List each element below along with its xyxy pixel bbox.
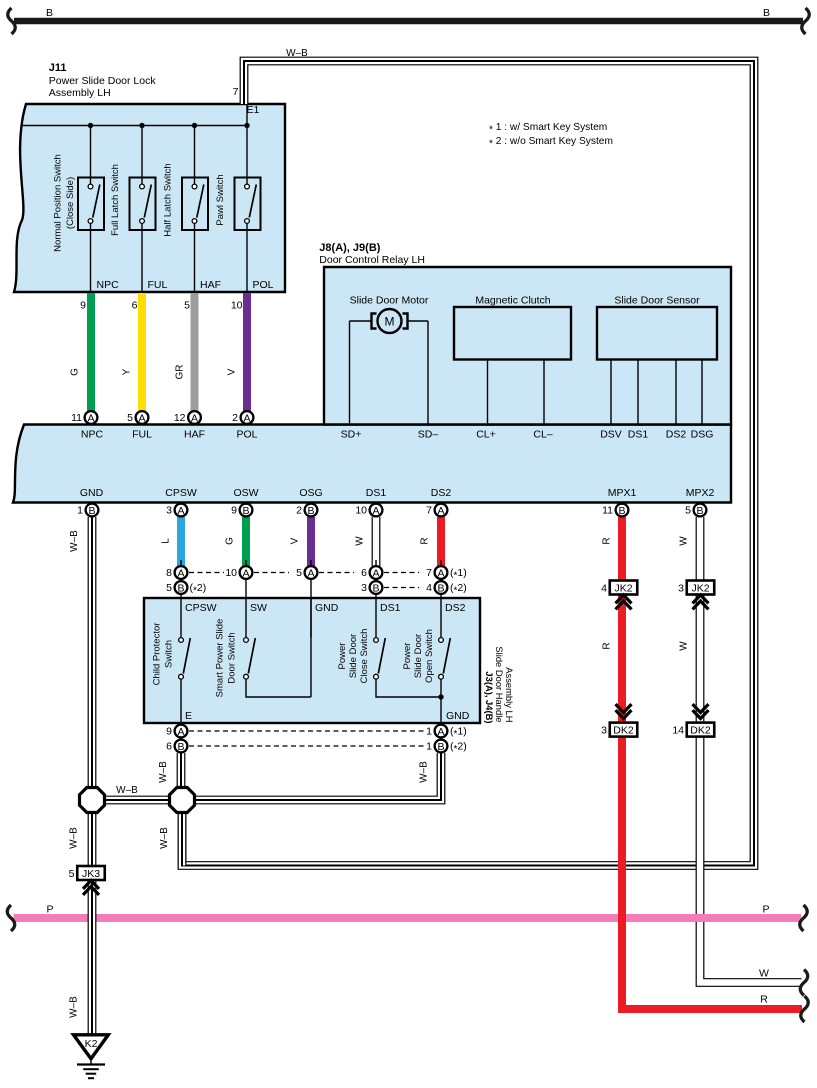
svg-text:SW: SW — [250, 602, 267, 614]
svg-text:R: R — [601, 642, 612, 649]
svg-text:FUL: FUL — [148, 279, 168, 291]
svg-text:Slide Door Handle: Slide Door Handle — [494, 646, 505, 722]
svg-text:B: B — [88, 505, 95, 517]
svg-text:Slide Door: Slide Door — [413, 634, 424, 678]
svg-text:A: A — [372, 567, 379, 579]
svg-text:OSG: OSG — [299, 487, 322, 499]
svg-text:W–B: W–B — [418, 761, 429, 783]
svg-text:14: 14 — [672, 725, 684, 737]
svg-text:A: A — [177, 567, 184, 579]
svg-text:Half Latch Switch: Half Latch Switch — [163, 163, 174, 236]
svg-text:11: 11 — [71, 412, 82, 424]
svg-text:M: M — [385, 315, 395, 329]
svg-text:B: B — [437, 741, 444, 753]
svg-text:2: 2 — [232, 412, 238, 424]
svg-text:B: B — [46, 7, 53, 19]
svg-text:A: A — [307, 567, 314, 579]
svg-text:W: W — [678, 536, 689, 546]
svg-text:7: 7 — [426, 567, 432, 579]
svg-text:SD–: SD– — [418, 429, 439, 441]
svg-text:CL–: CL– — [533, 429, 552, 441]
svg-text:W–B: W–B — [116, 785, 138, 796]
svg-text:E: E — [185, 710, 192, 722]
svg-text:MPX1: MPX1 — [608, 487, 637, 499]
svg-text:GND: GND — [80, 487, 104, 499]
svg-text:1: 1 — [77, 505, 83, 517]
svg-text:5: 5 — [166, 582, 172, 594]
svg-text:R: R — [419, 537, 430, 544]
svg-text:JK2: JK2 — [691, 583, 709, 595]
svg-text:B: B — [307, 505, 314, 517]
svg-text:A: A — [242, 567, 249, 579]
svg-text:Power: Power — [337, 643, 348, 670]
svg-text:B: B — [177, 582, 184, 594]
svg-text:11: 11 — [602, 505, 613, 517]
svg-text:HAF: HAF — [200, 279, 221, 291]
svg-text:R: R — [760, 994, 768, 1006]
svg-text:Full Latch Switch: Full Latch Switch — [110, 164, 121, 236]
svg-text:4: 4 — [426, 582, 432, 594]
svg-text:6: 6 — [132, 300, 138, 312]
svg-text:Open Switch: Open Switch — [424, 629, 435, 683]
svg-text:A: A — [437, 726, 444, 738]
svg-text:V: V — [226, 368, 237, 375]
svg-text:3: 3 — [601, 725, 607, 737]
svg-text:A: A — [243, 412, 250, 424]
svg-text:A: A — [191, 412, 198, 424]
svg-text:DS1: DS1 — [380, 602, 401, 614]
svg-text:G: G — [69, 368, 80, 376]
svg-text:B: B — [177, 741, 184, 753]
svg-text:6: 6 — [166, 741, 172, 753]
svg-text:JK2: JK2 — [614, 583, 632, 595]
svg-text:HAF: HAF — [184, 429, 205, 441]
svg-text:DK2: DK2 — [613, 725, 634, 737]
svg-text:CPSW: CPSW — [165, 487, 197, 499]
svg-text:A: A — [177, 505, 184, 517]
svg-text:W–B: W–B — [69, 530, 80, 552]
svg-text:P: P — [46, 904, 53, 916]
svg-text:W: W — [759, 968, 769, 980]
svg-text:W–B: W–B — [158, 761, 169, 783]
svg-text:Slide Door Sensor: Slide Door Sensor — [614, 295, 700, 307]
svg-text:1: 1 — [426, 741, 432, 753]
svg-text:J8(A), J9(B): J8(A), J9(B) — [319, 242, 380, 254]
svg-text:9: 9 — [231, 505, 237, 517]
svg-text:5: 5 — [296, 567, 302, 579]
svg-text:Slide Door Motor: Slide Door Motor — [350, 295, 429, 307]
svg-text:Smart Power Slide: Smart Power Slide — [215, 619, 226, 698]
svg-text:G: G — [224, 537, 235, 545]
svg-text:Power: Power — [402, 643, 413, 670]
svg-text:NPC: NPC — [81, 429, 104, 441]
svg-text:8: 8 — [166, 567, 172, 579]
svg-text:3: 3 — [678, 583, 684, 595]
svg-text:DS1: DS1 — [628, 429, 649, 441]
svg-text:B: B — [242, 505, 249, 517]
svg-text:3: 3 — [361, 582, 367, 594]
svg-text:J11: J11 — [49, 62, 67, 74]
svg-text:7: 7 — [233, 86, 239, 98]
svg-text:5: 5 — [184, 300, 190, 312]
svg-text:P: P — [762, 904, 769, 916]
svg-text:DSV: DSV — [600, 429, 622, 441]
svg-text:DSG: DSG — [691, 429, 714, 441]
svg-text:4: 4 — [601, 583, 607, 595]
svg-text:10: 10 — [225, 567, 237, 579]
svg-text:Assembly LH: Assembly LH — [504, 667, 515, 722]
svg-text:2: 2 — [296, 505, 302, 517]
svg-text:SD+: SD+ — [341, 429, 362, 441]
svg-text:Y: Y — [121, 368, 132, 375]
svg-text:A: A — [138, 412, 145, 424]
svg-text:DS1: DS1 — [366, 487, 387, 499]
svg-text:(Close Side): (Close Side) — [65, 177, 76, 229]
svg-text:Normal Position Switch: Normal Position Switch — [53, 154, 64, 252]
svg-text:A: A — [372, 505, 379, 517]
svg-text:W: W — [678, 641, 689, 651]
svg-text:E1: E1 — [247, 104, 260, 116]
svg-text:Door Control Relay LH: Door Control Relay LH — [319, 254, 425, 266]
svg-text:CL+: CL+ — [476, 429, 496, 441]
svg-text:Door Switch: Door Switch — [227, 632, 238, 683]
svg-text:OSW: OSW — [233, 487, 258, 499]
svg-text:3: 3 — [166, 505, 172, 517]
svg-text:A: A — [87, 412, 94, 424]
svg-text:W: W — [354, 536, 365, 546]
svg-text:Power Slide Door Lock: Power Slide Door Lock — [49, 75, 157, 87]
svg-text:10: 10 — [355, 505, 367, 517]
svg-text:W–B: W–B — [159, 827, 170, 849]
svg-text:CPSW: CPSW — [185, 602, 217, 614]
svg-text:J3(A), J4(B): J3(A), J4(B) — [484, 671, 495, 723]
svg-text:Pawl Switch: Pawl Switch — [215, 174, 226, 225]
svg-text:DS2: DS2 — [666, 429, 687, 441]
svg-text:NPC: NPC — [97, 279, 120, 291]
svg-text:Child Protector: Child Protector — [152, 623, 163, 686]
svg-text:B: B — [372, 582, 379, 594]
svg-text:B: B — [618, 505, 625, 517]
svg-text:Close Switch: Close Switch — [359, 629, 370, 684]
svg-text:Slide Door: Slide Door — [348, 634, 359, 678]
svg-text:K2: K2 — [85, 1038, 98, 1050]
svg-text:Assembly LH: Assembly LH — [49, 87, 111, 99]
svg-text:GR: GR — [174, 365, 185, 380]
svg-text:Magnetic Clutch: Magnetic Clutch — [475, 295, 550, 307]
svg-text:A: A — [437, 567, 444, 579]
svg-text:5: 5 — [69, 868, 75, 880]
svg-text:POL: POL — [253, 279, 274, 291]
svg-text:6: 6 — [361, 567, 367, 579]
svg-text:B: B — [763, 7, 770, 19]
svg-text:B: B — [696, 505, 703, 517]
svg-text:B: B — [437, 582, 444, 594]
svg-text:GND: GND — [446, 710, 470, 722]
svg-text:12: 12 — [174, 412, 186, 424]
svg-text:R: R — [601, 537, 612, 544]
svg-text:5: 5 — [127, 412, 133, 424]
svg-text:W–B: W–B — [68, 996, 79, 1018]
svg-text:L: L — [160, 538, 171, 544]
svg-text:W–B: W–B — [286, 48, 308, 59]
svg-text:DK2: DK2 — [690, 725, 711, 737]
svg-text:A: A — [177, 726, 184, 738]
svg-text:FUL: FUL — [132, 429, 152, 441]
svg-text:POL: POL — [236, 429, 257, 441]
svg-text:10: 10 — [231, 300, 243, 312]
svg-text:JK3: JK3 — [82, 868, 100, 880]
svg-text:V: V — [289, 537, 300, 544]
svg-text:GND: GND — [315, 602, 339, 614]
svg-text:9: 9 — [80, 300, 86, 312]
svg-text:A: A — [437, 505, 444, 517]
svg-text:1: 1 — [426, 726, 432, 738]
svg-text:DS2: DS2 — [445, 602, 466, 614]
svg-text:W–B: W–B — [68, 827, 79, 849]
svg-text:Switch: Switch — [164, 640, 175, 668]
svg-text:5: 5 — [685, 505, 691, 517]
svg-text:MPX2: MPX2 — [686, 487, 715, 499]
svg-text:DS2: DS2 — [431, 487, 452, 499]
svg-text:9: 9 — [166, 726, 172, 738]
svg-text:7: 7 — [426, 505, 432, 517]
